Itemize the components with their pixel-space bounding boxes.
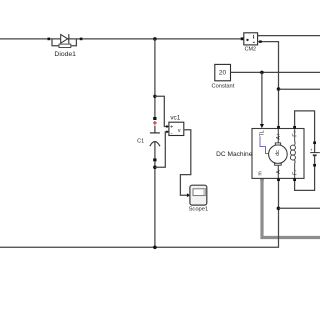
pin pad left of Diode1 <box>48 38 51 41</box>
svg-text:A+: A+ <box>276 133 282 140</box>
svg-text:+: + <box>310 147 313 152</box>
wire branch to vc1 minus input <box>155 132 167 167</box>
wire battery top stem <box>314 144 316 153</box>
polarity plus mark red <box>153 121 157 125</box>
svg-text:C1: C1 <box>137 138 144 144</box>
wire snubber bracket <box>52 39 76 46</box>
pin arrow vc1 plus <box>166 125 169 128</box>
wire battery bottom stem <box>314 155 316 164</box>
wire A- branch to right edge <box>278 207 320 209</box>
pin arrow Scope1 input <box>187 193 190 197</box>
svg-text:-: - <box>171 131 173 137</box>
svg-text:Constant: Constant <box>212 83 235 89</box>
motor U1 DC Machine <box>216 126 304 181</box>
svg-text:Diode1: Diode1 <box>54 51 76 58</box>
wire CM2 i output to edge <box>258 35 320 37</box>
wire armature top <box>277 129 279 144</box>
svg-text:20: 20 <box>219 70 227 77</box>
wire Constant output to edge <box>231 71 320 73</box>
pin label minus CM2 <box>253 41 255 43</box>
node junction TL branch <box>260 71 264 75</box>
node junction A- branch <box>277 207 281 211</box>
wire branch to right edge <box>279 88 320 90</box>
node junction bottom rail C1 <box>153 246 157 250</box>
scope Scope1 <box>187 185 208 212</box>
scope screen <box>193 189 205 196</box>
node junction top wire to load branch <box>153 37 157 41</box>
diode Diode1 <box>48 34 83 58</box>
pin pad A+ <box>277 126 280 129</box>
wire A- down and bottom rail <box>0 181 279 247</box>
capacitor C1 branch <box>137 39 160 247</box>
node junction A+ wire branch <box>277 87 281 91</box>
wire F- to field source <box>295 166 315 190</box>
capacitor plate top <box>150 132 160 134</box>
wire m measurement bus thick <box>262 179 320 238</box>
wire field source to F+ <box>295 111 315 142</box>
node junction to vc1 plus <box>153 95 156 98</box>
node junction to vc1 minus <box>153 165 157 169</box>
pin pad C1 bottom <box>153 158 156 161</box>
pin pad battery top <box>313 142 316 145</box>
pin pad battery bottom <box>313 164 316 167</box>
wire branch to vc1 plus input <box>155 96 167 126</box>
svg-text:A-: A- <box>276 168 282 173</box>
pin pad C1 top <box>153 117 156 120</box>
pin pad F- <box>293 178 296 181</box>
svg-text:CM2: CM2 <box>245 47 256 53</box>
diode triangle <box>61 34 68 43</box>
wire stem bottom <box>154 142 156 159</box>
brush top <box>275 143 280 145</box>
wire top rail to CM2 <box>0 38 241 40</box>
wire blue shaft link <box>260 136 269 153</box>
brush bottom <box>275 163 282 165</box>
pin pad right of Diode1 <box>80 38 83 41</box>
pin arrow TL input <box>260 124 264 128</box>
svg-text:v: v <box>178 128 181 134</box>
battery plate short <box>313 154 317 156</box>
capacitor plate curved <box>150 142 160 147</box>
svg-text:vc1: vc1 <box>170 115 180 122</box>
battery plate long <box>310 152 320 154</box>
wire armature bottom <box>277 165 279 178</box>
wire C1 to bottom rail <box>154 161 156 247</box>
svg-text:+: + <box>170 125 173 131</box>
pin pad m <box>260 178 263 181</box>
constant block Constant <box>212 64 320 128</box>
pin label i CM2 <box>253 36 254 38</box>
pin arrow vc1 minus <box>166 130 169 133</box>
pin label plus CM2 <box>246 39 248 41</box>
voltmeter vc1 <box>166 115 183 137</box>
pin pad CM2 minus <box>259 40 262 43</box>
wire from top rail down to C1 <box>154 39 156 117</box>
svg-text:TL: TL <box>260 130 266 136</box>
svg-text:dc: dc <box>275 150 281 156</box>
resistor snubber <box>59 44 71 47</box>
field coil <box>290 129 295 179</box>
wire TL drop <box>261 72 263 124</box>
diode cathode bar <box>68 34 70 43</box>
ammeter CM2 <box>241 33 320 126</box>
pin pad A- <box>277 178 280 181</box>
svg-text:Scope1: Scope1 <box>189 207 209 213</box>
wire vc1 output to Scope1 <box>180 130 190 196</box>
wire stem to plate <box>154 126 156 133</box>
battery field DC source <box>310 142 320 167</box>
svg-text:F-: F- <box>292 170 298 175</box>
armature circle <box>269 145 288 164</box>
svg-text:DC Machine: DC Machine <box>216 151 253 158</box>
svg-text:F+: F+ <box>292 130 298 136</box>
wire CM2 minus to A+ <box>258 42 279 126</box>
pin pad CM2 left <box>241 37 244 40</box>
pin pad F+ <box>293 126 296 129</box>
svg-text:m: m <box>258 171 264 175</box>
